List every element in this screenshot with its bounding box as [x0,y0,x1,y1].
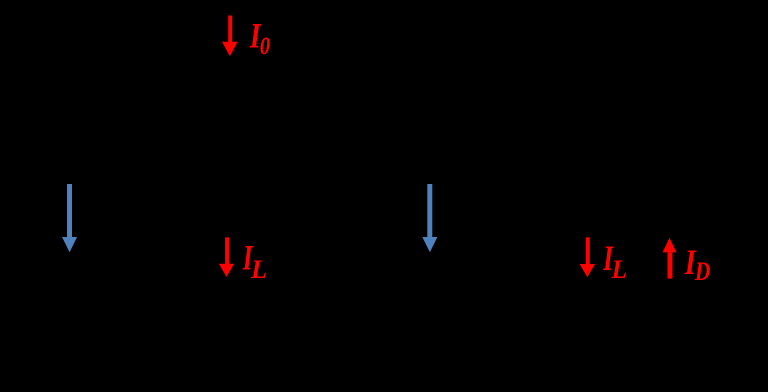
current arrow (blue, down, right branch) [422,184,437,252]
current arrow ID (red, up, diode branch) [663,238,677,279]
svg-text:D: D [694,258,710,287]
svg-text:0: 0 [260,32,271,61]
svg-text:L: L [611,255,628,285]
current arrow IL (red, down, right load branch) [580,237,595,277]
svg-text:L: L [250,255,267,284]
current arrow (blue, down, left branch) [62,184,77,252]
label ID [684,243,710,287]
current arrow IL (red, down, left load branch) [219,237,234,277]
label IL (right) [602,238,627,284]
label IL (left) [242,237,267,284]
current arrow I0 (red, down, source branch at top) [222,16,238,57]
label I0 [249,15,270,61]
